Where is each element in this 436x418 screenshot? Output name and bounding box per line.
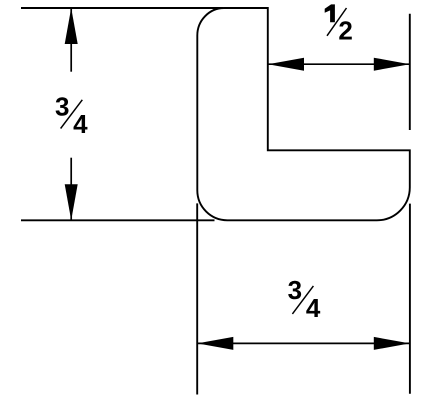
extension line: right of 1/2 dim [409, 14, 411, 130]
extension line: top of vertical 3/4 dim [21, 7, 223, 9]
arrowhead left (bottom 3/4) [197, 337, 233, 350]
extension line: bottom of vertical 3/4 dim [21, 219, 215, 221]
svg-text:4: 4 [73, 109, 88, 139]
arrowhead left (1/2) [268, 58, 304, 71]
vertical 3/4 dimension line (lower segment) [70, 158, 72, 221]
moulding profile outline [197, 8, 410, 220]
svg-text:3: 3 [55, 91, 69, 121]
vertical 3/4 dimension line (upper segment) [70, 8, 72, 72]
1/2 dimension line [268, 63, 410, 65]
svg-text:3: 3 [288, 275, 302, 305]
svg-text:4: 4 [306, 293, 321, 323]
arrowhead right (1/2) [374, 58, 410, 71]
label 1/2 [325, 4, 353, 45]
extension line: left of bottom 3/4 dim [196, 203, 198, 394]
arrowhead right (bottom 3/4) [374, 337, 410, 350]
label 3/4 (bottom dim) [288, 275, 321, 323]
arrowhead up (vertical 3/4) [65, 8, 78, 44]
svg-text:2: 2 [338, 16, 352, 46]
label 3/4 (vertical dim) [55, 91, 88, 139]
arrowhead down (vertical 3/4) [65, 184, 78, 220]
extension line: right of bottom 3/4 dim [409, 204, 411, 394]
bottom 3/4 dimension line [197, 342, 409, 344]
